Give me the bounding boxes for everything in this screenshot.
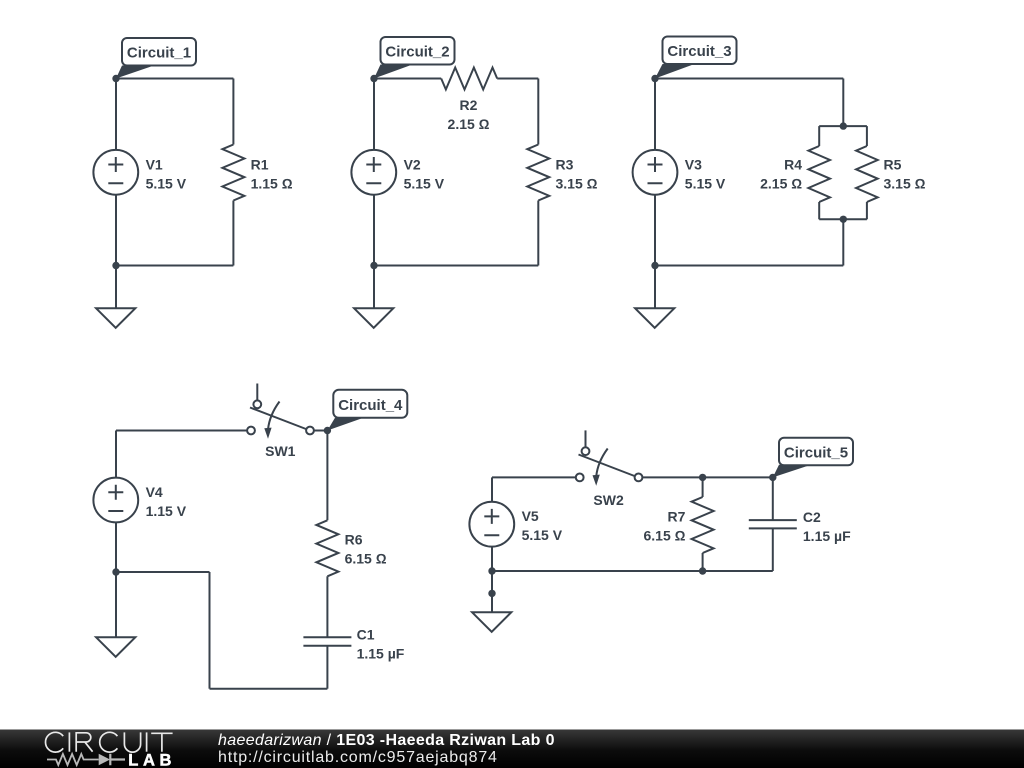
svg-text:2.15 Ω: 2.15 Ω	[448, 116, 490, 132]
wire	[116, 571, 210, 573]
wire	[326, 576, 328, 637]
wire	[654, 79, 656, 151]
resistor R3	[527, 145, 597, 201]
svg-text:1.15 µF: 1.15 µF	[803, 528, 851, 544]
wire	[655, 78, 843, 80]
svg-text:Circuit_4: Circuit_4	[338, 397, 403, 414]
wire	[373, 266, 375, 309]
node junction circuit 3 bottom	[651, 262, 658, 269]
svg-text:R4: R4	[784, 157, 802, 173]
svg-text:3.15 Ω: 3.15 Ω	[556, 176, 598, 192]
wire	[702, 553, 704, 571]
svg-text:V1: V1	[146, 157, 163, 173]
wire	[654, 195, 656, 266]
footer title line	[218, 732, 555, 749]
node junction circuit 1 bottom	[112, 262, 119, 269]
node junction R7 bottom	[699, 567, 706, 574]
wire parallel top bar	[819, 125, 867, 127]
wire	[537, 201, 539, 266]
svg-text:3.15 Ω: 3.15 Ω	[884, 176, 926, 192]
label Circuit_3	[655, 37, 737, 79]
wire	[210, 688, 328, 690]
svg-text:Circuit_1: Circuit_1	[127, 45, 191, 62]
svg-text:R3: R3	[556, 157, 574, 173]
svg-text:http://circuitlab.com/c957aeja: http://circuitlab.com/c957aejabq874	[218, 749, 498, 766]
svg-text:V4: V4	[146, 484, 163, 500]
svg-text:5.15 V: 5.15 V	[685, 176, 726, 192]
wire	[491, 571, 493, 593]
svg-text:V3: V3	[685, 157, 702, 173]
wire	[492, 570, 773, 572]
capacitor C1	[303, 627, 404, 662]
wire	[209, 572, 211, 689]
voltage source V3	[633, 150, 726, 195]
svg-text:5.15 V: 5.15 V	[522, 527, 563, 543]
wire	[374, 78, 441, 80]
node A top-left circuit 1	[112, 75, 119, 82]
wire	[373, 79, 375, 151]
wire	[374, 265, 538, 267]
svg-text:6.15 Ω: 6.15 Ω	[345, 551, 387, 567]
wire	[643, 476, 773, 478]
wire	[702, 477, 704, 497]
svg-text:SW2: SW2	[593, 492, 624, 508]
label Circuit_1	[116, 38, 196, 79]
logo CIRCUIT wordmark	[46, 732, 173, 752]
wire	[842, 79, 844, 127]
wire	[373, 195, 375, 266]
svg-text:Circuit_3: Circuit_3	[667, 43, 731, 60]
wire	[866, 126, 868, 146]
ground circuit 1	[96, 308, 135, 328]
node junction ground circuit 5	[488, 590, 495, 597]
node junction C2 top	[769, 474, 776, 481]
svg-text:SW1: SW1	[265, 443, 296, 459]
wire	[116, 78, 233, 80]
svg-text:Circuit_2: Circuit_2	[385, 44, 449, 61]
resistor R6	[316, 520, 386, 576]
wire	[818, 202, 820, 219]
wire	[115, 266, 117, 309]
svg-text:5.15 V: 5.15 V	[146, 176, 187, 192]
svg-text:1.15 µF: 1.15 µF	[357, 646, 405, 662]
svg-text:R5: R5	[884, 157, 902, 173]
resistor R5	[856, 146, 926, 202]
svg-text:LAB: LAB	[128, 752, 176, 768]
wire	[116, 430, 247, 432]
wire	[314, 430, 327, 432]
switch SW1	[247, 384, 314, 460]
wire	[497, 78, 538, 80]
footer url line	[218, 749, 498, 766]
wire	[772, 528, 774, 571]
wire	[491, 593, 493, 612]
svg-text:V2: V2	[404, 157, 421, 173]
node junction bottom rail V5	[488, 567, 495, 574]
voltage source V1	[93, 150, 186, 195]
svg-text:C2: C2	[803, 509, 821, 525]
wire	[491, 547, 493, 572]
voltage source V4	[93, 478, 186, 523]
wire	[232, 79, 234, 145]
label Circuit_2	[374, 37, 455, 79]
wire	[232, 201, 234, 266]
label Circuit_5	[773, 438, 853, 478]
svg-text:Circuit_5: Circuit_5	[784, 444, 848, 461]
node junction switch right circuit 4	[324, 427, 331, 434]
svg-text:R2: R2	[460, 97, 478, 113]
wire	[537, 79, 539, 145]
svg-text:haeedarizwan / 1E03 -Haeeda Rz: haeedarizwan / 1E03 -Haeeda Rziwan Lab 0	[218, 732, 555, 749]
svg-text:C1: C1	[357, 627, 375, 643]
ground circuit 2	[354, 308, 393, 328]
node junction circuit 2 bottom	[370, 262, 377, 269]
wire	[115, 522, 117, 572]
wire	[491, 477, 493, 501]
svg-text:R1: R1	[251, 157, 269, 173]
wire	[492, 476, 576, 478]
voltage source V2	[351, 150, 444, 195]
switch SW2	[576, 430, 643, 508]
svg-text:R7: R7	[667, 509, 685, 525]
node junction below V4	[112, 568, 119, 575]
resistor R4	[760, 146, 830, 202]
node junction R7 top	[699, 474, 706, 481]
ground circuit 4	[96, 637, 135, 657]
svg-text:2.15 Ω: 2.15 Ω	[760, 176, 802, 192]
svg-text:5.15 V: 5.15 V	[404, 176, 445, 192]
resistor R1	[222, 145, 292, 201]
wire	[772, 477, 774, 520]
voltage source V5	[469, 502, 562, 547]
wire	[654, 266, 656, 309]
ground circuit 5	[472, 612, 511, 632]
wire	[818, 126, 820, 146]
wire	[115, 572, 117, 637]
node top-left circuit 3	[651, 75, 658, 82]
capacitor C2	[749, 509, 851, 544]
svg-text:1.15 Ω: 1.15 Ω	[251, 176, 293, 192]
svg-text:6.15 Ω: 6.15 Ω	[644, 528, 686, 544]
logo LAB wordmark	[128, 752, 176, 768]
svg-text:1.15 V: 1.15 V	[146, 503, 187, 519]
wire	[842, 219, 844, 265]
svg-text:R6: R6	[345, 532, 363, 548]
wire	[115, 79, 117, 151]
node junction parallel bottom	[840, 216, 847, 223]
svg-text:V5: V5	[522, 508, 539, 524]
wire	[115, 431, 117, 479]
wire	[326, 646, 328, 689]
node top-left circuit 2	[370, 75, 377, 82]
wire	[655, 265, 843, 267]
wire	[326, 431, 328, 521]
logo resistor-diode symbol	[47, 754, 125, 766]
resistor R7	[644, 497, 714, 553]
wire	[866, 202, 868, 219]
wire	[116, 265, 233, 267]
resistor R2	[441, 68, 497, 133]
wire	[115, 195, 117, 266]
node junction parallel top	[840, 122, 847, 129]
ground circuit 3	[635, 308, 674, 328]
label Circuit_4	[327, 390, 407, 431]
wire parallel bottom bar	[819, 218, 867, 220]
